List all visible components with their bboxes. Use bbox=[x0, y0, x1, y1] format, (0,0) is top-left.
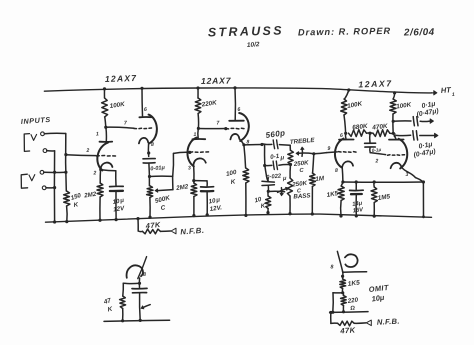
svg-text:47K: 47K bbox=[339, 325, 356, 335]
svg-text:2: 2 bbox=[374, 158, 378, 164]
svg-text:10/2: 10/2 bbox=[247, 41, 260, 49]
svg-text:47K: 47K bbox=[144, 220, 161, 231]
svg-text:6: 6 bbox=[237, 107, 240, 113]
svg-text:μ: μ bbox=[282, 176, 287, 182]
svg-text:6: 6 bbox=[340, 133, 343, 139]
svg-text:8: 8 bbox=[335, 168, 338, 174]
svg-text:STRAUSS: STRAUSS bbox=[208, 24, 284, 40]
svg-text:1M: 1M bbox=[315, 175, 325, 183]
svg-text:1: 1 bbox=[96, 131, 99, 137]
svg-text:8: 8 bbox=[143, 272, 146, 278]
svg-text:10μ: 10μ bbox=[371, 293, 385, 304]
svg-text:12AX7: 12AX7 bbox=[201, 75, 232, 86]
svg-text:12AX7: 12AX7 bbox=[105, 73, 138, 84]
svg-text:12AX7: 12AX7 bbox=[358, 78, 393, 89]
svg-text:1: 1 bbox=[193, 132, 196, 138]
svg-text:0-1: 0-1 bbox=[270, 153, 280, 161]
svg-text:8: 8 bbox=[330, 264, 333, 270]
svg-text:9: 9 bbox=[327, 146, 330, 152]
svg-text:Drawn: R. ROPER: Drawn: R. ROPER bbox=[298, 26, 391, 38]
svg-text:2/6/04: 2/6/04 bbox=[403, 27, 435, 39]
svg-text:8: 8 bbox=[151, 142, 154, 148]
svg-text:6: 6 bbox=[144, 107, 147, 113]
svg-text:3: 3 bbox=[188, 165, 191, 171]
svg-text:N.F.B.: N.F.B. bbox=[377, 317, 400, 327]
svg-text:BASS: BASS bbox=[293, 192, 312, 200]
svg-text:0-1μ: 0-1μ bbox=[372, 147, 382, 153]
svg-text:2: 2 bbox=[85, 148, 89, 154]
svg-text:μ: μ bbox=[279, 154, 284, 161]
svg-text:N.F.B.: N.F.B. bbox=[180, 226, 205, 237]
svg-text:2: 2 bbox=[92, 170, 96, 176]
svg-text:1: 1 bbox=[452, 92, 455, 98]
